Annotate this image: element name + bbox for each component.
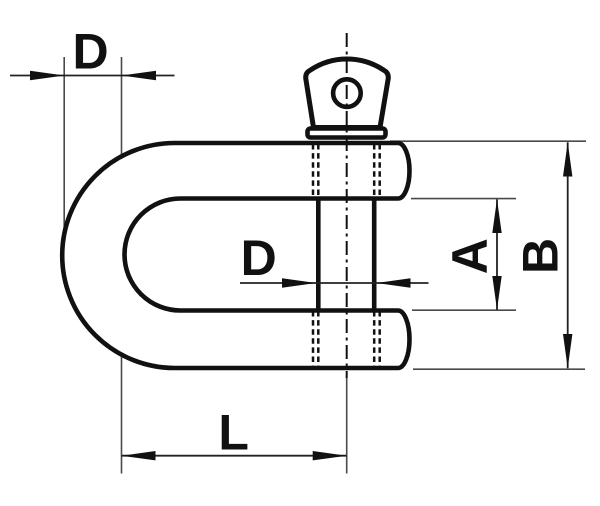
svg-text:L: L: [218, 404, 249, 460]
svg-text:D: D: [241, 230, 277, 286]
svg-text:D: D: [73, 23, 109, 79]
svg-text:B: B: [513, 238, 569, 274]
svg-text:A: A: [442, 238, 498, 274]
